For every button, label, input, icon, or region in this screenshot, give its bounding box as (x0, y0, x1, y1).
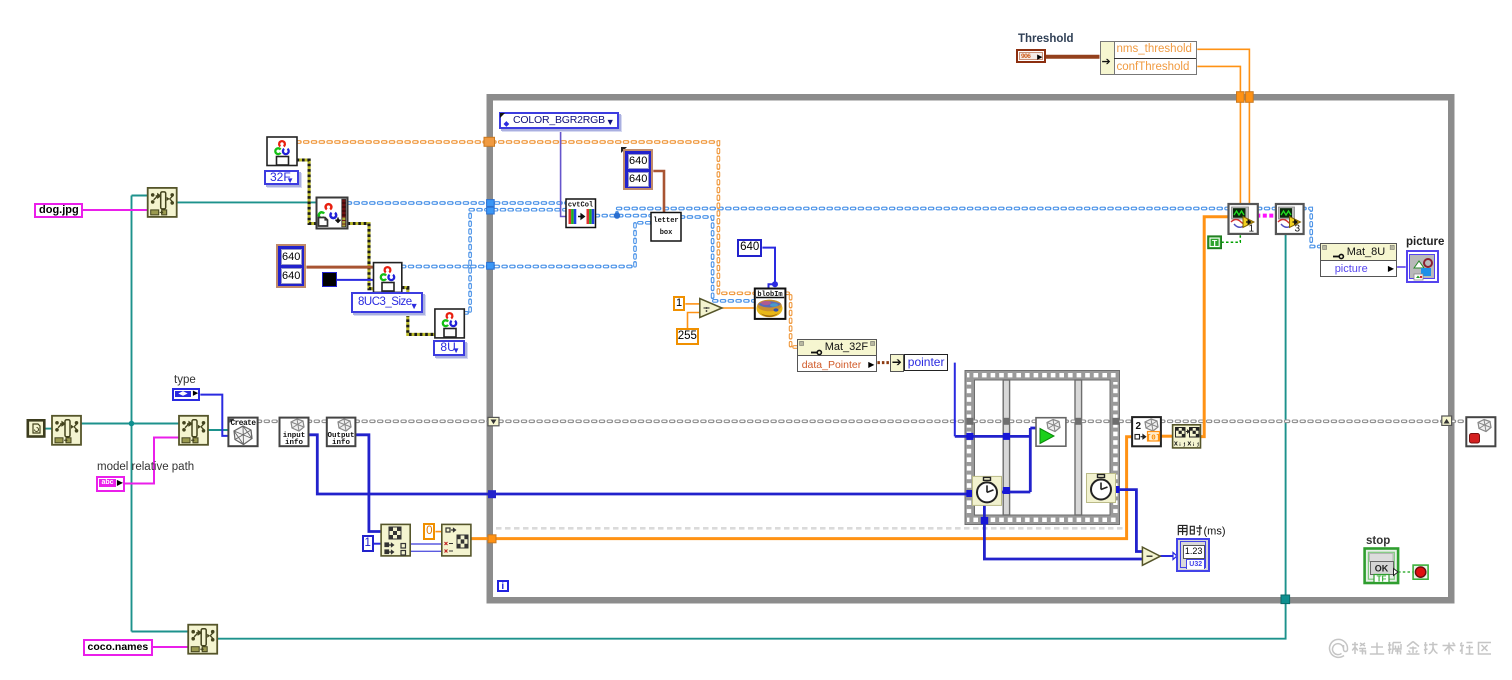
wire: Mat chain 8UC3 to letterbox (402, 223, 651, 267)
wire: teal path dog.jpg build-path to imread (176, 201, 316, 203)
node: cast to pointer (890, 354, 904, 372)
wire: blue pointer to forward icon (955, 435, 1031, 438)
svg-text:xᵢⱼ: xᵢⱼ (1187, 441, 1200, 449)
wire: error chain sequence frame 3 (1082, 419, 1113, 423)
constant: COLOR_BGR2RGB enum (499, 112, 619, 129)
wire: blue scalar wires (200, 248, 1173, 556)
control: stop OK button (1365, 549, 1399, 584)
svg-text:TF: TF (1377, 575, 1387, 584)
wire: error chain Output info to left shift register (355, 419, 489, 423)
wire: gray error chain main line (258, 419, 1467, 423)
svg-text:2: 2 (1136, 421, 1142, 432)
wire overlay: white chain cores (297, 142, 797, 347)
control: type enum (172, 388, 200, 402)
svg-text:(ms): (ms) (1204, 526, 1226, 538)
node: Mat_8U property node (1320, 243, 1397, 277)
constant: 255 orange (676, 328, 699, 345)
constant: black square (322, 272, 338, 287)
wire: violet picture wire (1397, 266, 1406, 268)
wire: blue into forward icon (1030, 427, 1037, 430)
wire: orange blob-to-array to DNN1 (1201, 217, 1229, 437)
icon: set blob size (index) (442, 524, 471, 556)
tunnel: left shift register (error) (488, 417, 499, 425)
wire overlay: white chain cores (258, 420, 1467, 422)
icon: blobImage (755, 289, 786, 319)
icon: createMat 8UC3 (374, 263, 402, 293)
wire: blue vertical to forward icon (1029, 428, 1032, 492)
wire: magenta string wires (83, 210, 189, 647)
wire: teal path vertical trunk (131, 196, 133, 632)
icon: build array (bottom) (381, 524, 410, 556)
label: elapsed time (ms) CJK drawn as paths (1178, 525, 1202, 535)
wire: orange constant 1 to divide (685, 303, 700, 305)
wire: Mat chain 32F to blobImage (297, 142, 755, 293)
icon: divide (700, 299, 722, 318)
node: teal junction dot (129, 421, 135, 427)
node: nms/conf property node (1100, 41, 1198, 76)
icon: letterbox (651, 213, 681, 242)
wire: magenta dog.jpg string (83, 209, 148, 211)
wire: blue Output info array to build array (355, 435, 381, 532)
wire: olive error imread to 8UC3 (348, 224, 374, 289)
frame separators (1003, 380, 1009, 515)
wire: olive error dotted between create-mat icons (297, 160, 435, 334)
constant: coco.names string (83, 639, 153, 657)
icon: imread (317, 198, 348, 229)
wire: orange nms_threshold to DNN1 (1197, 49, 1249, 204)
terminal: loop iteration i (497, 580, 510, 593)
sprocket holes top/bottom (967, 373, 1117, 377)
icon: build path coco.names (188, 625, 217, 654)
icon: current VI path (28, 420, 45, 436)
svg-text:info: info (332, 439, 351, 447)
wire: magenta coco.names string (152, 646, 188, 648)
wire: blue constant 1 to build array (374, 543, 381, 545)
svg-text:cvtCol: cvtCol (568, 202, 593, 210)
icon: Create net (228, 418, 257, 447)
icon: input info (280, 418, 309, 447)
svg-text:info: info (285, 439, 304, 447)
icon: release net (1466, 417, 1495, 446)
tunnel: blue info on left border (488, 490, 496, 498)
svg-text:OK: OK (1375, 564, 1389, 574)
wire: blue clock1 to subtract (984, 506, 1142, 560)
icon: DNN draw overlay 1 (1229, 204, 1258, 235)
constant: 640 numeric (737, 239, 762, 257)
wire: magenta model relative path string (125, 438, 179, 484)
label: Threshold (1018, 33, 1074, 45)
icon: DNN draw overlay 3 (1276, 204, 1304, 235)
wire: teal path into dog.jpg build-path (132, 195, 148, 197)
tunnel: sequence blue tunnels (966, 433, 1119, 524)
svg-text:[0]: [0] (1147, 435, 1161, 443)
wire: orange constant 0 to index icon (435, 531, 441, 533)
wire: teal path, VI-path icon to build-path (44, 428, 52, 430)
icon: createMat 8U (435, 309, 464, 338)
wire: orange get-output to blob-to-array (1161, 435, 1173, 438)
icon: net forward (green arrow) (1036, 418, 1066, 447)
icon: get output blob "2" (1132, 417, 1161, 446)
tunnel: teal names on bottom border (1281, 595, 1290, 604)
constant: boolean T (1208, 236, 1221, 248)
indicator: elapsed ms (U32) (1176, 538, 1210, 572)
dropdown: 8U (433, 340, 465, 356)
control: model relative path string (96, 476, 125, 492)
wire: error chain sequence to get-output icon (1119, 419, 1132, 423)
wire: teal names path to DNN icon 3 (217, 234, 1285, 639)
wire: blue constant 640 to blobImage (762, 248, 775, 289)
wire: error chain sequence frame 1 (973, 419, 1003, 423)
constant: 1 blue (bottom) (362, 535, 374, 553)
icon: Output info (327, 418, 356, 447)
label: model relative path (97, 461, 194, 473)
wire: orange array wires (bottom) (471, 217, 1229, 539)
label: pointer box (904, 354, 949, 371)
wire: light blue Mat chain wires (348, 203, 1320, 313)
wire: blue array wires (net info) (308, 428, 1143, 559)
icon: sequence clock 2 (1087, 474, 1116, 503)
icon: build path (left) (52, 416, 81, 445)
wire overlay: olive error dark dashes (297, 160, 435, 334)
wire: orange confThreshold to DNN1 (1197, 66, 1240, 204)
wire: error chain to release icon (1452, 419, 1467, 423)
wire: orange divide to blobImage (722, 307, 755, 309)
wire: error chain Create to input info (258, 419, 279, 423)
constant: 640x640 cluster A (276, 244, 306, 287)
wire: Mat chain blobImage to Mat_32F node (785, 293, 796, 347)
wire: brown cluster wires (1046, 55, 1100, 59)
wire: Mat chain DNN3 to Mat_8U node (1302, 209, 1320, 247)
wire: blue clock2 to subtract (1115, 490, 1142, 552)
wire: error chain to right shift register (1161, 419, 1442, 423)
tunnel: light blue mats on left border (487, 200, 495, 207)
label: stop (1366, 535, 1390, 547)
wire: teal path app-dir vertical trunk (44, 196, 1285, 639)
wire: olive error 32F to imread (297, 160, 317, 224)
wire: blue black square to 8UC3 (337, 279, 374, 281)
wire: olive error 8UC3 to 8U (402, 288, 435, 335)
terminal: stop red circle (1413, 565, 1428, 579)
constant: 1 orange (673, 296, 686, 311)
svg-text:T: T (1212, 238, 1218, 248)
icon: createMat 32F (267, 137, 297, 166)
wire: Mat chain imread to cvtColor (348, 201, 567, 205)
watermark: @ juejin community CJK drawn as paths (1330, 639, 1491, 657)
wire: teal path into coco.names build-path (132, 631, 189, 633)
wire: violet enum wire (561, 128, 566, 217)
wire: blue clock1 output (1002, 491, 1031, 494)
icon: build path dog.jpg (148, 188, 177, 217)
wire: Mat chain DNN1 to DNN3 (1258, 207, 1276, 211)
tunnel: orange thresholds on top border (1237, 92, 1245, 103)
wire: magenta dashed between DNN icons (1256, 214, 1276, 218)
wire: teal model path to Create (208, 429, 229, 431)
svg-text:1: 1 (1248, 224, 1254, 235)
tunnel: orange array on left border (488, 535, 496, 543)
flat sequence structure (filmstrip) (965, 371, 1120, 525)
node: blue Mat junction dot (614, 212, 620, 218)
dropdown: 32F (264, 170, 299, 185)
wire: error chain input info to Output info (308, 419, 327, 423)
constant: 640x640 cluster B (622, 148, 624, 150)
constant: dog.jpg string (34, 203, 83, 218)
icon: sequence clock 1 (973, 476, 1002, 505)
wire: teal path, build-path to model build-path (81, 423, 180, 425)
wire: Mat chain 8U to cvtColor (464, 210, 566, 313)
icon: blob to array (1173, 425, 1201, 449)
wire: error chain inside loop to sequence (499, 419, 966, 423)
indicator: picture (1406, 250, 1439, 283)
wire: faint gray dashed (unused error) inside loop (496, 527, 1126, 530)
icon: subtract (1142, 547, 1177, 565)
wire: orange float wires (threshold) (435, 49, 1249, 531)
wire: blue build array to index row 1 (410, 543, 442, 545)
while loop border (487, 94, 1455, 604)
wire: orange array index to get-output icon (471, 437, 1132, 539)
svg-text:letter: letter (653, 217, 678, 225)
wire: green boolean wires (1221, 234, 1240, 242)
constant: 0 orange (bottom) (423, 523, 435, 540)
wire: blue pointer vertical (954, 363, 956, 437)
wire: blue input info array to clock 1 (308, 435, 973, 494)
wire: orange constant 255 to divide (688, 313, 700, 329)
wire: orange Mat chain wires (297, 142, 797, 347)
dropdown: 8UC3_Size (351, 292, 423, 312)
svg-text:box: box (660, 229, 673, 237)
wire: Mat chain cvtColor to DNN icon 1 (617, 209, 1229, 216)
wire: blue subtract to ms indicator (1160, 555, 1173, 557)
wire: brown dashed pointer wire (877, 361, 889, 364)
wire: Mat chain cvtColor to letterbox (596, 214, 652, 218)
icon: build path model (179, 416, 208, 445)
tunnel: orange 32F mat on left border (484, 137, 495, 146)
node: Mat_32F property node (797, 339, 878, 373)
tunnel: right shift register (error) (1442, 416, 1452, 425)
wire: error chain sequence frame 2 (1010, 419, 1075, 423)
label: picture (1406, 236, 1444, 248)
wire overlay: white chain cores (348, 203, 1320, 313)
wire: blue build array to index row 2 (410, 550, 442, 552)
wire: Mat chain letterbox to blobImage (681, 217, 755, 301)
icon: cvtColor (566, 199, 596, 228)
wire: blue type enum to Create (200, 395, 228, 436)
tunnel: sequence error tunnels (966, 418, 1119, 425)
svg-text:xᵢⱼ: xᵢⱼ (1174, 441, 1187, 449)
svg-text:3: 3 (1294, 224, 1300, 235)
label: type (174, 374, 196, 386)
control: Threshold cluster (1016, 49, 1046, 63)
